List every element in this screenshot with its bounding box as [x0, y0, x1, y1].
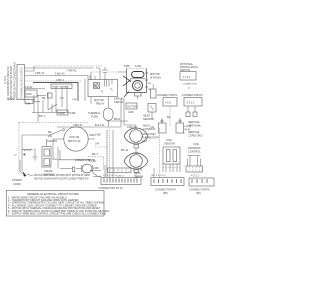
connector P5 — [189, 178, 214, 186]
H frame component — [186, 142, 203, 172]
svg-text:MOTOR SWITCHES SHOWN WITH MOTO: MOTOR SWITCHES SHOWN WITH MOTOR AT REST — [34, 174, 91, 177]
svg-text:4-BK: 4-BK — [128, 110, 134, 114]
svg-text:CORD: CORD — [13, 182, 21, 186]
coil connector block — [163, 138, 180, 164]
motor M1 assembly — [118, 64, 147, 99]
svg-text:LINK: LINK — [26, 92, 32, 96]
svg-text:4 3 2 1: 4 3 2 1 — [187, 101, 195, 105]
motor housing — [127, 69, 147, 93]
timer switch box — [85, 68, 118, 104]
svg-text:1 2 3 4 5 6 7 8: 1 2 3 4 5 6 7 8 — [103, 175, 118, 177]
terminal block TB — [17, 65, 25, 100]
svg-text:COIL: COIL — [166, 138, 173, 142]
selector box — [57, 110, 76, 115]
svg-text:17 BU: 17 BU — [89, 159, 96, 163]
push to start text — [51, 84, 72, 89]
heater H1 — [48, 127, 95, 160]
connector P4 pin numbers — [156, 175, 167, 177]
svg-text:CONNECTOR P9 44: CONNECTOR P9 44 — [99, 186, 124, 190]
svg-text:880 P D W: 880 P D W — [68, 139, 81, 143]
svg-text:4-BK-41: 4-BK-41 — [73, 123, 83, 127]
svg-text:3-R: 3-R — [95, 142, 99, 146]
svg-text:1-BU-41: 1-BU-41 — [55, 72, 65, 76]
svg-text:W 41: W 41 — [185, 128, 192, 132]
svg-text:BK-7: BK-7 — [92, 152, 98, 156]
motor start winding — [132, 72, 145, 78]
svg-text:TERMINAL BLOCK SUPPLY: TERMINAL BLOCK SUPPLY — [20, 67, 23, 98]
plug connector J1 — [102, 67, 108, 78]
power cord — [15, 149, 33, 176]
svg-text:4 BK 4: 4 BK 4 — [56, 78, 64, 82]
power cord arrow — [23, 171, 27, 177]
svg-text:SHOWN: SHOWN — [47, 139, 57, 143]
connector J2 feed wires — [104, 165, 106, 178]
jumper box — [108, 168, 132, 178]
legend box — [7, 191, 110, 217]
high limit thermostat TS2 — [124, 148, 148, 179]
cabinet dashed top edge — [25, 66, 35, 71]
svg-text:SENSOR: SENSOR — [164, 142, 175, 146]
svg-text:(4P): (4P) — [196, 191, 201, 195]
svg-text:2-R: 2-R — [150, 125, 154, 129]
dashed wire vertical — [159, 128, 161, 178]
svg-text:2 BK 41: 2 BK 41 — [35, 71, 45, 75]
svg-text:SWITCH SHOWN WITH DOOR CLOSED: SWITCH SHOWN WITH DOOR CLOSED TIMER ON — [34, 179, 89, 181]
timer contact 1 — [94, 83, 100, 89]
capacitor box — [151, 84, 157, 98]
svg-text:CYCL: CYCL — [134, 171, 141, 175]
indicator L1 — [176, 118, 192, 133]
inlet sensor S3 — [148, 104, 156, 113]
svg-text:SENSOR: SENSOR — [143, 117, 154, 121]
svg-text:CONNECTOR P1: CONNECTOR P1 — [157, 93, 178, 97]
motor run winding circle — [133, 81, 143, 91]
svg-text:CONNECTOR P5: CONNECTOR P5 — [189, 188, 210, 192]
cycling thermostat label block — [133, 168, 143, 179]
motor wires — [118, 71, 127, 73]
svg-text:THERM: THERM — [134, 175, 143, 179]
svg-text:POWER SUPPLY CONNECTION B: POWER SUPPLY CONNECTION B — [13, 62, 16, 100]
wire from TB bottom — [25, 100, 33, 104]
svg-text:6-OR: 6-OR — [135, 64, 141, 68]
svg-text:DRYNESS: DRYNESS — [188, 146, 201, 150]
svg-text:CONTROL: CONTROL — [188, 150, 201, 154]
wire N bus — [25, 76, 89, 80]
wire down from dashes — [90, 72, 92, 80]
svg-text:3M: 3M — [148, 89, 151, 91]
buzzer oval BZ — [60, 158, 101, 177]
svg-text:BK: BK — [48, 130, 52, 134]
svg-text:BK-1: BK-1 — [39, 114, 45, 118]
relay contact — [72, 167, 74, 172]
timer feed wires — [89, 75, 91, 80]
power cord caption (rotated text) — [5, 62, 16, 100]
heater relay box — [114, 97, 137, 115]
svg-text:INLET: INLET — [143, 114, 151, 118]
wire to connector — [92, 172, 101, 177]
svg-text:6 5 4 3 2 1: 6 5 4 3 2 1 — [156, 175, 167, 177]
svg-text:2-BK: 2-BK — [70, 111, 76, 115]
svg-text:6-BK-41: 6-BK-41 — [114, 97, 124, 101]
thermal fuse TF — [104, 97, 114, 128]
connector P4 feed wires — [153, 168, 155, 178]
wire dashed left of connector — [88, 156, 103, 158]
motor terminal tab — [135, 93, 142, 97]
timer lever — [94, 84, 99, 89]
svg-text:HIGH: HIGH — [143, 124, 150, 128]
svg-text:BK: BK — [167, 115, 171, 119]
svg-text:GND: GND — [8, 97, 14, 101]
svg-text:1-BK 41: 1-BK 41 — [133, 168, 143, 172]
svg-text:MOTOR: MOTOR — [150, 72, 160, 76]
fuse block F1 — [25, 90, 37, 97]
svg-text:(6P): (6P) — [163, 191, 168, 195]
svg-text:L1 N L2: L1 N L2 — [5, 75, 7, 84]
door switch S2 — [42, 139, 58, 177]
svg-text:BK-41: BK-41 — [121, 148, 129, 152]
connector P1 — [163, 98, 177, 107]
connector P2 — [184, 98, 202, 107]
wire gnd dash — [16, 98, 30, 100]
svg-text:5-BK: 5-BK — [72, 99, 77, 101]
svg-text:4 5 6: 4 5 6 — [165, 101, 171, 105]
console wires — [32, 86, 121, 127]
svg-text:THERMAL: THERMAL — [88, 111, 101, 115]
optional switch box — [180, 72, 196, 81]
svg-text:SERVICE: SERVICE — [188, 120, 200, 124]
centrifugal switch crossing — [123, 76, 131, 82]
wires down center — [120, 98, 122, 127]
wire below heater — [58, 159, 95, 161]
svg-text:7 - SUPPLY WIRE AND CONTROL: 7 - SUPPLY WIRE AND CONTROL CIRCUIT FAIL… — [8, 212, 106, 216]
svg-text:2-BK: 2-BK — [93, 166, 99, 170]
svg-text:LO 41: LO 41 — [185, 124, 193, 128]
svg-text:DRUM: DRUM — [45, 169, 53, 173]
svg-text:B-4-L-D: B-4-L-D — [95, 123, 104, 127]
cabinet dashed boundary — [18, 122, 88, 124]
svg-text:TEMP: TEMP — [58, 111, 65, 115]
svg-text:1-BK: 1-BK — [95, 133, 101, 137]
wire stub — [90, 170, 101, 172]
svg-text:5M: 5M — [148, 83, 151, 85]
sensor terminals — [186, 107, 197, 117]
svg-text:4 3 2 1: 4 3 2 1 — [191, 174, 199, 178]
svg-text:(4 POLE): (4 POLE) — [150, 76, 161, 80]
wire dashed from P1 — [169, 107, 171, 127]
svg-text:J-BK 4: J-BK 4 — [117, 176, 124, 178]
bus to timer (bold) — [33, 83, 78, 102]
svg-text:MOTOR: MOTOR — [94, 98, 104, 102]
connector J2 (bottom left) — [101, 178, 141, 185]
wire ground dotted — [25, 80, 83, 82]
svg-text:2W: 2W — [48, 134, 52, 138]
svg-text:THERMOSTAT: THERMOSTAT — [142, 136, 160, 140]
svg-text:3-PH-VE: 3-PH-VE — [69, 135, 80, 139]
svg-text:BK: BK — [42, 96, 46, 100]
svg-text:RELAY: RELAY — [96, 102, 105, 106]
svg-text:POWER: POWER — [12, 178, 22, 182]
switch lever to node — [50, 130, 62, 135]
svg-text:FUSE: FUSE — [91, 115, 98, 119]
inlet sensor stub — [151, 112, 153, 119]
svg-text:COIL: COIL — [193, 142, 200, 146]
wire from fuse — [25, 88, 46, 90]
svg-text:OV-TOR: OV-TOR — [127, 105, 137, 109]
optional rack note — [180, 62, 198, 90]
svg-text:2 BK: 2 BK — [53, 159, 58, 161]
note leader — [27, 174, 33, 176]
wire dashed to plug — [91, 71, 102, 73]
svg-text:U: U — [15, 153, 17, 157]
svg-text:15 A: 15 A — [142, 139, 147, 143]
svg-text:1 2 3 4: 1 2 3 4 — [183, 76, 191, 79]
wire dashed — [163, 167, 180, 169]
svg-text:5-BK: 5-BK — [124, 64, 130, 68]
svg-text:CONNECTOR P2: CONNECTOR P2 — [182, 93, 203, 97]
svg-text:CONNECTOR: CONNECTOR — [183, 84, 197, 86]
timer inner wires — [103, 80, 105, 87]
svg-text:BK-N: BK-N — [114, 117, 120, 121]
svg-text:1-W: 1-W — [26, 102, 31, 106]
svg-text:CORD ONLY: CORD ONLY — [188, 134, 203, 138]
svg-text:CONNECTOR P4: CONNECTOR P4 — [155, 188, 176, 192]
console interior wire — [22, 134, 50, 136]
svg-text:Y-BK-41: Y-BK-41 — [67, 69, 77, 73]
motor terminal ticks — [146, 72, 148, 74]
wire L1 bus — [25, 67, 94, 69]
wire riser — [33, 95, 35, 113]
svg-text:5-BK-41: 5-BK-41 — [114, 100, 124, 104]
cycling thermostat TS1 — [124, 125, 148, 148]
svg-text:HIGH LIMIT: HIGH LIMIT — [142, 132, 156, 136]
strain relief coil — [22, 149, 32, 150]
connector P4 — [151, 178, 184, 186]
buzzer B1 — [150, 118, 166, 133]
ground symbol — [33, 148, 38, 161]
